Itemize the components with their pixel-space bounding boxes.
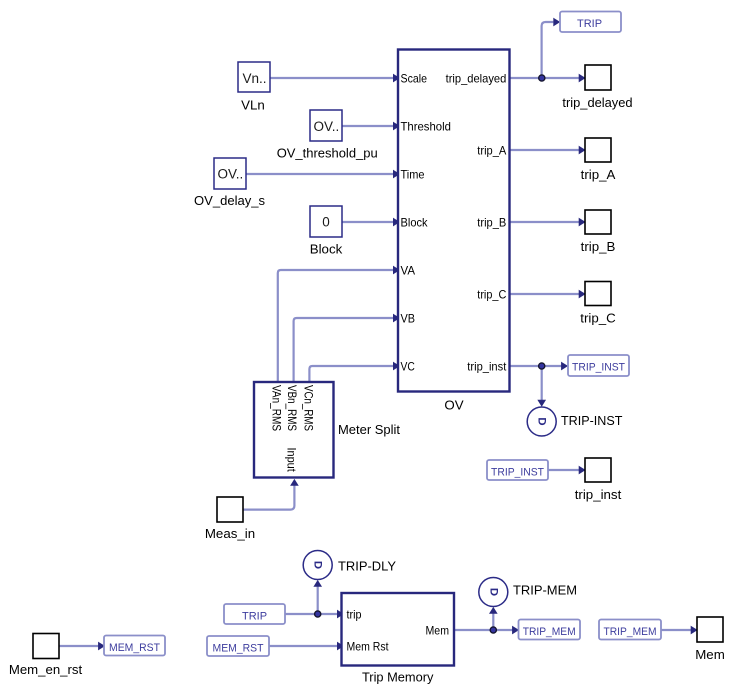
wire Meter Split VBn_RMS to VB bbox=[294, 314, 400, 382]
viewer TRIP-MEM bbox=[479, 578, 577, 607]
from tag TRIP_INST bbox=[487, 460, 548, 480]
svg-text:OV_threshold_pu: OV_threshold_pu bbox=[277, 146, 378, 161]
junction trip_delayed branch bbox=[539, 75, 545, 81]
subsystem Trip Memory bbox=[342, 593, 455, 685]
svg-text:TRIP_INST: TRIP_INST bbox=[491, 466, 544, 478]
goto tag MEM_RST bbox=[104, 636, 165, 656]
svg-text:trip: trip bbox=[347, 609, 362, 622]
svg-text:D: D bbox=[536, 417, 548, 425]
svg-text:MEM_RST: MEM_RST bbox=[109, 642, 160, 654]
svg-text:trip_A: trip_A bbox=[581, 167, 616, 182]
svg-text:TRIP_INST: TRIP_INST bbox=[572, 361, 625, 373]
svg-text:VB: VB bbox=[401, 313, 416, 326]
junction trip_inst branch bbox=[539, 363, 545, 369]
svg-text:trip_B: trip_B bbox=[477, 217, 506, 230]
subsystem Meter Split bbox=[254, 382, 400, 478]
svg-text:TRIP-DLY: TRIP-DLY bbox=[338, 559, 396, 574]
svg-text:Scale: Scale bbox=[401, 73, 428, 86]
from tag TRIP_MEM bbox=[599, 620, 661, 640]
wire MEM_RST from to Mem Rst port bbox=[269, 642, 343, 650]
svg-text:Vn..: Vn.. bbox=[243, 71, 267, 86]
junction trip branch bbox=[315, 611, 321, 617]
wire branch up to TRIP-DLY viewer bbox=[314, 580, 322, 614]
wire branch up to TRIP goto bbox=[542, 18, 560, 78]
svg-text:OV..: OV.. bbox=[218, 167, 244, 182]
svg-text:trip_C: trip_C bbox=[477, 289, 506, 302]
svg-text:VBn_RMS: VBn_RMS bbox=[285, 385, 298, 431]
svg-text:VC: VC bbox=[401, 361, 415, 374]
wire trip_C to outport bbox=[510, 290, 585, 298]
svg-text:VLn: VLn bbox=[241, 98, 265, 113]
constant block Block bbox=[310, 206, 343, 257]
svg-text:D: D bbox=[487, 588, 499, 596]
svg-text:Mem: Mem bbox=[426, 625, 450, 638]
wire trip_A to outport bbox=[510, 146, 585, 154]
goto tag TRIP_INST bbox=[568, 355, 629, 376]
svg-text:trip_delayed: trip_delayed bbox=[446, 73, 507, 86]
wire Mem output to TRIP_MEM goto bbox=[454, 626, 519, 634]
inport Meas_in bbox=[205, 497, 255, 541]
wire Meas_in to Meter Split Input bbox=[243, 479, 298, 509]
wire branch up to TRIP-MEM viewer bbox=[490, 607, 498, 630]
constant block VLn bbox=[238, 62, 270, 113]
wire TRIP_INST from to trip_inst outport bbox=[548, 466, 585, 474]
svg-text:VAn_RMS: VAn_RMS bbox=[270, 385, 283, 431]
svg-text:TRIP: TRIP bbox=[242, 610, 267, 622]
viewer TRIP-DLY bbox=[303, 551, 396, 580]
svg-text:OV..: OV.. bbox=[314, 119, 340, 134]
svg-text:MEM_RST: MEM_RST bbox=[213, 642, 264, 654]
outport trip_inst bbox=[575, 458, 622, 502]
svg-text:trip_inst: trip_inst bbox=[575, 487, 622, 502]
wire branch down to TRIP-INST viewer bbox=[538, 366, 546, 406]
wire OV_threshold_pu to Threshold bbox=[342, 122, 399, 130]
svg-text:trip_C: trip_C bbox=[580, 311, 616, 326]
svg-text:trip_inst: trip_inst bbox=[467, 361, 507, 374]
inport Mem_en_rst bbox=[9, 634, 83, 678]
svg-text:TRIP: TRIP bbox=[577, 18, 602, 30]
svg-text:Meter Split: Meter Split bbox=[338, 422, 400, 437]
svg-text:Mem_en_rst: Mem_en_rst bbox=[9, 662, 83, 677]
svg-text:VCn_RMS: VCn_RMS bbox=[302, 385, 315, 431]
viewer TRIP-INST bbox=[527, 407, 622, 436]
svg-text:TRIP_MEM: TRIP_MEM bbox=[604, 626, 657, 638]
wire OV_delay_s to Time bbox=[246, 170, 399, 178]
svg-text:trip_A: trip_A bbox=[477, 145, 506, 158]
constant block OV_delay_s bbox=[194, 158, 265, 208]
wire TRIP from to trip port bbox=[285, 610, 343, 618]
wire Mem_en_rst to MEM_RST goto bbox=[59, 642, 105, 650]
outport trip_A bbox=[581, 138, 616, 182]
svg-text:Trip Memory: Trip Memory bbox=[362, 670, 434, 685]
subsystem OV bbox=[398, 50, 510, 413]
svg-text:VA: VA bbox=[401, 265, 416, 278]
svg-text:Block: Block bbox=[310, 242, 343, 257]
from tag MEM_RST bbox=[207, 636, 269, 656]
svg-text:Input: Input bbox=[285, 448, 298, 473]
svg-text:Block: Block bbox=[401, 217, 428, 230]
svg-text:Time: Time bbox=[401, 169, 425, 182]
from tag TRIP bbox=[224, 604, 285, 624]
svg-text:trip_B: trip_B bbox=[581, 239, 616, 254]
svg-text:OV: OV bbox=[444, 398, 463, 413]
goto tag TRIP_MEM bbox=[519, 620, 581, 640]
svg-text:Mem Rst: Mem Rst bbox=[347, 641, 390, 654]
wire trip_B to outport bbox=[510, 218, 585, 226]
outport Mem bbox=[695, 617, 725, 662]
wire VLn to Scale bbox=[270, 74, 399, 82]
junction Mem branch bbox=[490, 627, 496, 633]
svg-text:D: D bbox=[312, 561, 324, 569]
wire TRIP_MEM from to Mem outport bbox=[661, 626, 697, 634]
outport trip_C bbox=[580, 282, 616, 326]
svg-text:Mem: Mem bbox=[695, 647, 725, 662]
svg-text:TRIP_MEM: TRIP_MEM bbox=[523, 626, 576, 638]
svg-text:Threshold: Threshold bbox=[401, 121, 451, 134]
outport trip_B bbox=[581, 210, 616, 254]
wire trip_inst to TRIP_INST goto bbox=[510, 362, 568, 370]
goto tag TRIP bbox=[560, 12, 621, 33]
constant block OV_threshold_pu bbox=[277, 110, 378, 161]
wire trip_delayed output to outport bbox=[510, 74, 585, 82]
wire Block const to Block port bbox=[342, 218, 399, 226]
svg-text:trip_delayed: trip_delayed bbox=[562, 95, 632, 110]
svg-text:TRIP-INST: TRIP-INST bbox=[561, 413, 622, 428]
wire Meter Split VCn_RMS to VC bbox=[309, 362, 399, 382]
outport trip_delayed bbox=[562, 65, 632, 110]
svg-text:OV_delay_s: OV_delay_s bbox=[194, 193, 265, 208]
svg-text:TRIP-MEM: TRIP-MEM bbox=[513, 583, 577, 598]
svg-text:Meas_in: Meas_in bbox=[205, 526, 255, 541]
svg-text:0: 0 bbox=[322, 215, 330, 230]
wire Meter Split VAn_RMS to VA bbox=[278, 266, 400, 382]
